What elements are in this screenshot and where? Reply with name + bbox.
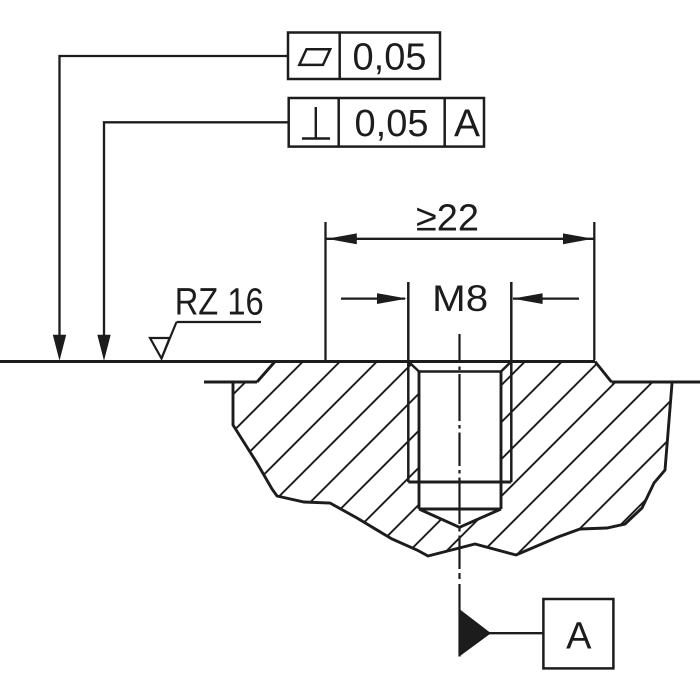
svg-text:≥22: ≥22 xyxy=(416,198,479,240)
M8 arrowhead left (points right) xyxy=(377,293,407,304)
roughness symbol triangle xyxy=(150,338,170,359)
dim arrowhead left (points left) xyxy=(327,233,357,244)
perpendicularity symbol xyxy=(302,107,330,139)
surface line (datum surface) xyxy=(0,360,595,363)
dimension line &ge;22 xyxy=(326,238,595,240)
feature control frame FCF2 (perpendicularity) box xyxy=(289,98,484,147)
right top edge xyxy=(612,381,700,384)
svg-text:M8: M8 xyxy=(432,278,488,319)
thread end line xyxy=(408,481,511,484)
svg-text:0,05: 0,05 xyxy=(355,103,429,145)
leader arrowhead 2 xyxy=(97,335,110,361)
thread major line right / M8 extension line right xyxy=(510,282,513,482)
roughness symbol bar xyxy=(177,321,262,323)
centerline (thread axis) xyxy=(458,334,460,657)
ledge line left xyxy=(204,381,257,384)
svg-text:A: A xyxy=(454,103,480,146)
leader arrowhead 1 xyxy=(53,335,66,361)
dim arrowhead right (points right) xyxy=(563,233,593,244)
leader from FCF1 xyxy=(60,56,289,339)
svg-text:RZ 16: RZ 16 xyxy=(175,282,264,324)
dimension &ge;22 extension line right xyxy=(593,222,595,360)
svg-text:0,05: 0,05 xyxy=(353,37,427,79)
drill bottom line xyxy=(419,508,501,511)
drill cone xyxy=(419,509,501,527)
datum leader line xyxy=(489,632,544,634)
feature control frame FCF1 (flatness) box xyxy=(288,33,440,80)
M8 arrow line left xyxy=(341,297,405,299)
right chamfer edge xyxy=(595,362,612,383)
svg-text:A: A xyxy=(566,616,592,658)
chamfer bottom line xyxy=(419,370,501,373)
thread major line left / M8 extension line left xyxy=(407,282,410,482)
chamfer diagonal left xyxy=(408,362,419,372)
chamfer diagonal right xyxy=(501,362,511,372)
roughness symbol long stroke xyxy=(162,322,177,359)
drill hole line left xyxy=(418,372,421,510)
leader from FCF2 xyxy=(104,122,289,339)
ledge chamfer xyxy=(257,362,275,383)
drill hole line right xyxy=(500,372,503,510)
M8 arrow line right xyxy=(513,297,579,299)
datum box xyxy=(543,599,613,668)
dimension &ge;22 extension line left xyxy=(324,222,326,360)
flatness symbol (parallelogram) xyxy=(299,49,330,65)
section blob outline (break lines) xyxy=(233,381,672,556)
M8 arrowhead right (points left) xyxy=(513,293,543,304)
datum triangle (filled) xyxy=(460,610,491,657)
